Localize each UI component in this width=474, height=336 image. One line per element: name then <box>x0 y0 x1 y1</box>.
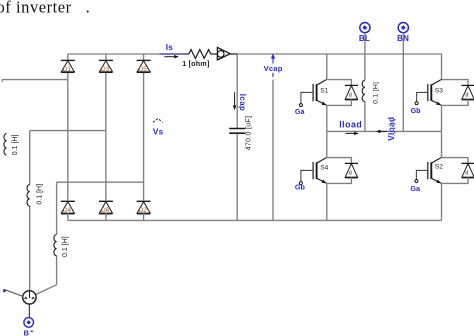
IGBT S4 <box>313 157 328 183</box>
svg-text:Is: Is <box>166 43 173 52</box>
svg-text:1 [ohm]: 1 [ohm] <box>182 59 209 68</box>
arrow Icap <box>233 92 237 110</box>
svg-text:D3: D3 <box>101 66 110 73</box>
svg-text:Ga: Ga <box>295 107 306 116</box>
gate lead Gb of S4 <box>295 170 313 191</box>
wire BN riser <box>402 33 404 132</box>
inductor L3 0.1 H <box>54 235 69 258</box>
svg-text:0.1 [H]: 0.1 [H] <box>36 184 43 205</box>
terminal phase A of source <box>3 289 23 296</box>
series diode D7 (triangle with circle) <box>217 47 230 60</box>
inductor Lload 0.1 H <box>362 80 379 104</box>
inductor L1 0.1 H (edge-cut) <box>4 134 19 156</box>
wire phase C horizontal (to leg 3) <box>57 181 144 183</box>
node BN marker <box>398 23 408 33</box>
svg-text:0.1 [H]: 0.1 [H] <box>62 236 69 257</box>
svg-text:d: d <box>465 93 468 99</box>
svg-text:S1: S1 <box>320 88 328 95</box>
node BL marker <box>360 23 370 33</box>
arrow Is direction <box>164 55 179 59</box>
svg-text:D1: D1 <box>63 66 72 73</box>
svg-text:.: . <box>86 0 90 17</box>
diode DS3 (antiparallel of S3) <box>461 85 474 99</box>
svg-text:470.0 [uF]: 470.0 [uF] <box>246 116 253 151</box>
svg-text:Gb: Gb <box>295 182 306 191</box>
voltmeter Vcap dash <box>272 73 274 77</box>
svg-text:Iload: Iload <box>339 119 362 129</box>
IGBT S3 <box>428 79 443 105</box>
wire capacitor branch upper <box>236 54 238 128</box>
svg-text:Gb: Gb <box>411 106 422 115</box>
diode DS4 (antiparallel of S4) <box>345 163 358 177</box>
wire BL to load inductor <box>364 33 366 132</box>
gate lead Ga of S1 <box>295 92 313 116</box>
diode DS2 (antiparallel of S2) <box>461 163 474 177</box>
three-phase source V1 <box>23 291 36 304</box>
wire S1 emitter tee <box>327 99 352 131</box>
wire phase B riser <box>29 131 31 291</box>
diode DS1 (antiparallel of S1) <box>345 85 358 99</box>
IGBT S1 <box>313 79 328 105</box>
wire S2 emitter tee <box>442 177 469 220</box>
svg-text:Vcap: Vcap <box>264 64 283 73</box>
svg-text:0.1 [H]: 0.1 [H] <box>12 135 19 156</box>
diode D1 <box>61 54 75 73</box>
svg-text:S2: S2 <box>435 164 443 171</box>
svg-text:of inverter: of inverter <box>0 0 72 17</box>
node B marker <box>24 318 34 328</box>
wire S1 collector tee <box>327 54 352 87</box>
IGBT S2 <box>428 157 443 183</box>
inductor L2 0.1 H <box>27 184 43 206</box>
svg-text:Ga: Ga <box>410 184 421 193</box>
gate lead Ga of S2 <box>410 170 427 193</box>
wire phase B horizontal (to leg 2) <box>30 130 106 132</box>
svg-text:D4: D4 <box>63 207 72 214</box>
gate lead Gb of S3 <box>411 92 428 115</box>
wire S4 emitter tee <box>327 177 352 220</box>
wire S3 collector tee <box>442 80 469 88</box>
arrow Vload <box>376 130 387 134</box>
diode D3 <box>99 54 113 73</box>
wire top DC bus left <box>68 53 160 55</box>
wire phase A horizontal (to leg 1) <box>2 79 68 81</box>
wire top DC bus right <box>230 53 237 55</box>
svg-text:d: d <box>465 171 468 177</box>
voltmeter Vcap body wire <box>272 80 274 221</box>
arrow Iload <box>346 132 359 136</box>
diode D5 <box>137 54 151 73</box>
svg-text:0.1 [H]: 0.1 [H] <box>372 82 379 104</box>
wire S3 emitter tee <box>442 99 469 131</box>
svg-text:Icap: Icap <box>238 94 247 111</box>
voltmeter Vload dashes <box>394 119 396 136</box>
svg-text:S3: S3 <box>435 88 443 95</box>
wire phase C riser <box>36 182 57 294</box>
diode D2 <box>137 199 151 220</box>
svg-text:D6: D6 <box>101 207 110 214</box>
label Vs with chevron <box>153 118 164 136</box>
voltmeter Vcap arrow <box>271 53 275 63</box>
ammeter Is wire segment <box>159 53 186 55</box>
diode D6 <box>99 199 113 220</box>
label B <box>24 328 33 336</box>
wire bus between resistor and series diode <box>211 53 217 55</box>
resistor R1 1 ohm <box>189 50 211 59</box>
svg-text:D2: D2 <box>139 207 148 214</box>
bridge leg 1 vertical wire <box>67 72 69 201</box>
svg-text:D5: D5 <box>139 66 148 73</box>
wire bus between ammeter and resistor <box>186 53 189 55</box>
wire capacitor branch lower <box>236 134 238 221</box>
svg-text:d: d <box>349 93 352 99</box>
svg-text:Vs: Vs <box>153 128 164 137</box>
bridge leg 3 vertical wire <box>143 72 145 201</box>
wire S2 collector tee <box>442 131 469 165</box>
wire source to node B <box>28 304 30 318</box>
wire load horizontal <box>327 130 442 132</box>
diode D4 <box>61 199 75 220</box>
bridge leg 2 vertical wire <box>105 72 107 201</box>
svg-text:d: d <box>349 171 352 177</box>
svg-text:B: B <box>24 328 29 336</box>
wire bottom DC bus <box>68 219 442 221</box>
capacitor C1 plates <box>229 129 245 134</box>
svg-text:S4: S4 <box>320 165 328 172</box>
wire S4 collector tee <box>327 131 352 165</box>
